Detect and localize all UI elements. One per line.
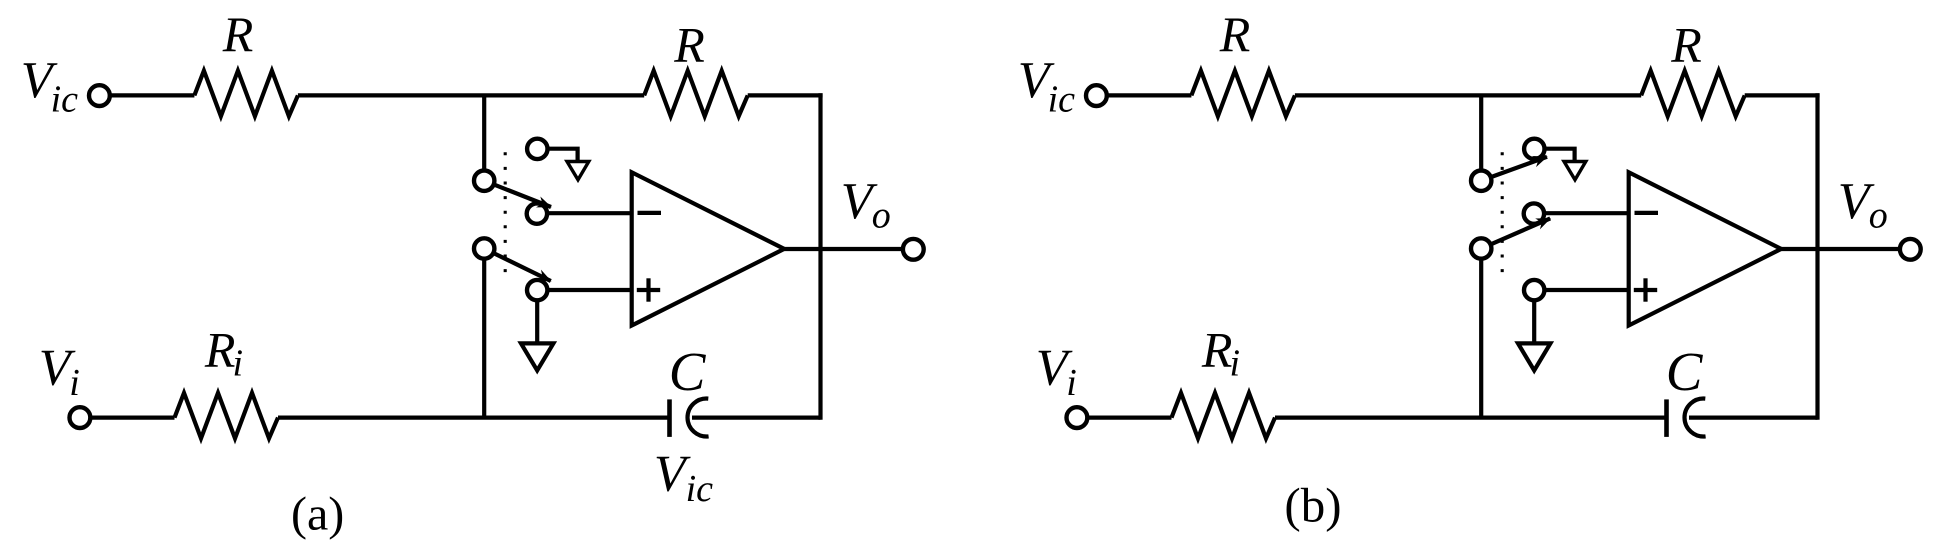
wire: capacitor C to feedback vertical (a) — [692, 416, 821, 420]
wire: feedback R to output branch corner (a) — [748, 93, 823, 97]
svg-text:i: i — [69, 362, 80, 404]
svg-text:C: C — [1666, 341, 1704, 402]
switch S1 pole contact (a) — [474, 171, 494, 191]
switch S2 pole contact (a) — [474, 238, 494, 258]
wire: feedback R to output branch corner (b) — [1745, 93, 1820, 97]
wire: non-inverting-input throw to op-amp (a) — [547, 288, 632, 292]
wire: top node stub down to switch pole 1 (a) — [482, 95, 486, 181]
svg-text:o: o — [872, 195, 891, 237]
svg-text:R: R — [673, 16, 705, 72]
svg-text:(a): (a) — [291, 488, 344, 541]
switch throw contact: ground arrow (a) — [527, 139, 547, 159]
op-amp U1 (a) — [632, 172, 785, 325]
svg-text:ic: ic — [1048, 78, 1076, 120]
svg-text:ic: ic — [686, 468, 714, 510]
wire: non-inverting throw down to ground (b) — [1532, 290, 1536, 343]
wire: inverting-input throw to op-amp (a) — [547, 211, 632, 215]
wire: bottom node from Ri to capacitor C (b) — [1275, 416, 1667, 420]
wire: Vi input terminal to resistor Ri (a) — [90, 416, 174, 420]
capacitor C (a) — [667, 399, 672, 437]
switch S1 lever (b): pole 1 to ground-arrow throw — [1490, 157, 1547, 178]
terminal: Vi input (b) — [1067, 407, 1088, 428]
svg-text:i: i — [233, 342, 244, 384]
wire: op-amp output to Vo terminal (b) — [1781, 247, 1898, 251]
ground (below non-inverting switch throw, b) — [1518, 343, 1550, 370]
switch throw contact: ground arrow (b) — [1524, 139, 1544, 159]
switch S1 lever (a): pole 1 to inverting throw — [493, 184, 551, 207]
svg-text:R: R — [1201, 321, 1233, 377]
terminal: Vic input (a) — [89, 85, 110, 106]
switch throw contact: non-inverting input (b) — [1524, 280, 1544, 300]
wire: non-inverting throw down to ground (a) — [535, 290, 539, 343]
wire: op-amp output to Vo terminal (a) — [784, 247, 901, 251]
wire: non-inverting-input throw to op-amp (b) — [1544, 288, 1629, 292]
switch throw contact: inverting input (a) — [527, 203, 547, 223]
terminal: Vo output (a) — [903, 239, 924, 260]
capacitor C (b) — [1664, 399, 1669, 437]
switch throw contact: inverting input (b) — [1524, 203, 1544, 223]
svg-text:(b): (b) — [1284, 477, 1341, 532]
wire: switch pole 2 down to bottom node (b) — [1479, 249, 1483, 418]
switch gang dotted line (b) — [1501, 152, 1504, 272]
ground (below non-inverting switch throw, a) — [521, 343, 553, 370]
wire: top node from R to feedback R (b) — [1295, 93, 1641, 97]
wire: bottom node from Ri to capacitor C (a) — [278, 416, 670, 420]
resistor R (input, top-left, a) — [194, 71, 298, 117]
wire: feedback vertical branch (a) — [818, 93, 822, 419]
svg-text:ic: ic — [51, 78, 79, 120]
ground arrow (top switch throw, b) — [1544, 149, 1574, 162]
switch gang dotted line (a) — [504, 152, 507, 272]
wire: switch pole 2 down to bottom node (a) — [482, 249, 486, 418]
switch S2 lever (a): pole 2 to non-inverting throw — [493, 253, 551, 281]
svg-text:i: i — [1230, 342, 1241, 384]
wire: top node from R to feedback R (a) — [298, 93, 644, 97]
terminal: Vo output (b) — [1900, 239, 1921, 260]
terminal: Vi input (a) — [70, 407, 91, 428]
switch throw contact: non-inverting input (a) — [527, 280, 547, 300]
wire: inverting-input throw to op-amp (b) — [1544, 211, 1629, 215]
resistor R (feedback, top-right, a) — [644, 71, 748, 117]
svg-text:R: R — [1670, 16, 1702, 72]
svg-text:i: i — [1066, 362, 1077, 404]
switch S1 pole contact (b) — [1471, 171, 1491, 191]
op-amp U1 (b) — [1629, 172, 1782, 325]
svg-text:o: o — [1869, 195, 1888, 237]
svg-text:R: R — [1219, 6, 1251, 62]
ground arrow (top switch throw, a) — [547, 149, 577, 162]
wire: Vic input terminal to resistor R (b) — [1107, 93, 1192, 97]
svg-text:R: R — [204, 321, 236, 377]
resistor R (feedback, top-right, b) — [1641, 71, 1745, 117]
resistor R (input, top-left, b) — [1191, 71, 1295, 117]
svg-text:R: R — [222, 6, 254, 62]
resistor Ri (bottom input, b) — [1172, 393, 1276, 439]
svg-text:C: C — [669, 341, 707, 402]
wire: feedback vertical branch (b) — [1815, 93, 1819, 419]
wire: top node stub down to switch pole 1 (b) — [1479, 95, 1483, 181]
switch S2 lever (b): pole 2 to inverting throw — [1490, 218, 1550, 244]
resistor Ri (bottom input, a) — [175, 393, 279, 439]
switch S2 pole contact (b) — [1471, 238, 1491, 258]
wire: Vi input terminal to resistor Ri (b) — [1087, 416, 1171, 420]
terminal: Vic input (b) — [1086, 85, 1107, 106]
wire: Vic input terminal to resistor R (a) — [110, 93, 195, 97]
wire: capacitor C to feedback vertical (b) — [1689, 416, 1818, 420]
